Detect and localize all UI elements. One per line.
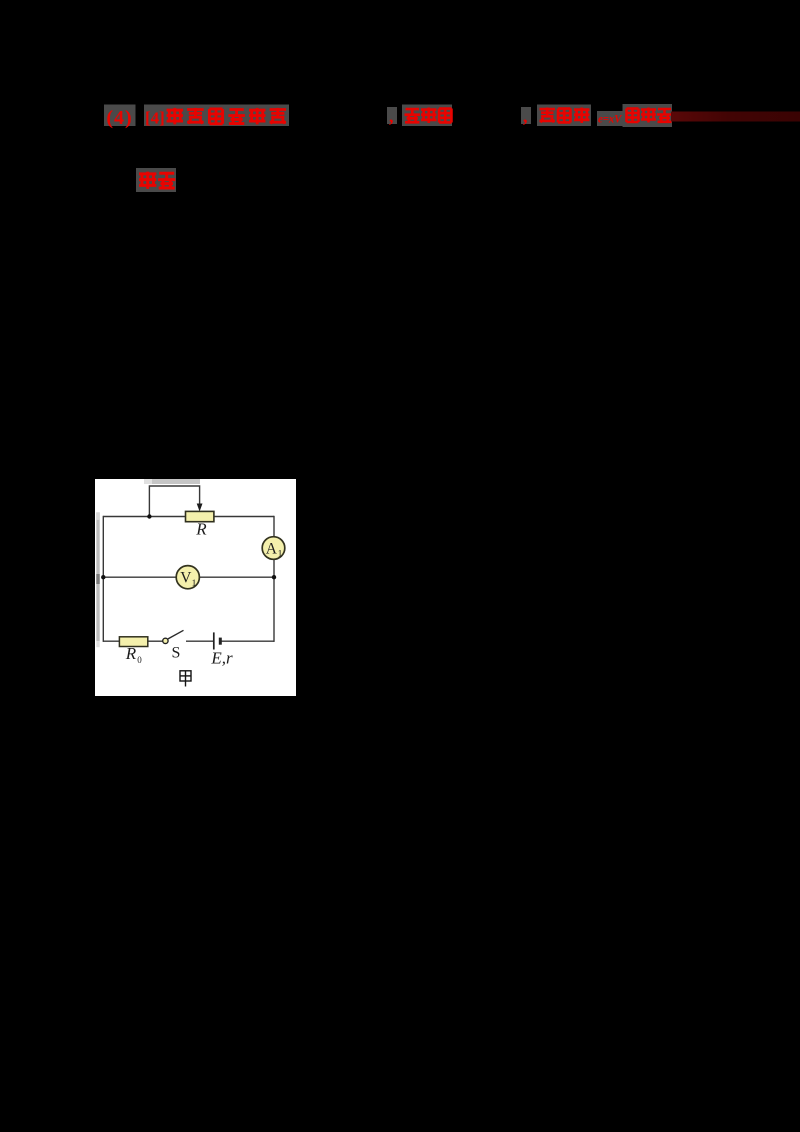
red answer text line 1: highlight box [4] + answer characters [144, 105, 289, 128]
wire: top right [214, 516, 274, 518]
ammeter A1 [262, 537, 285, 560]
caption jia (drawn glyph) [180, 671, 191, 687]
wire: right vertical upper [273, 516, 275, 537]
wire: battery to right [220, 640, 274, 642]
red math e=xV [597, 111, 623, 126]
red answer text line 1: highlight box (4) [104, 105, 136, 130]
red answer segment 3 [537, 105, 591, 127]
red answer segment 4 [623, 104, 673, 127]
rheostat arrow head [197, 504, 203, 512]
label R0 [125, 644, 142, 665]
wire: middle left [103, 576, 176, 578]
voltmeter V1 [176, 566, 199, 589]
node: junction mid-right [272, 575, 276, 579]
wire: left vertical [102, 516, 104, 642]
node: junction mid-left [101, 575, 105, 579]
svg-text:0: 0 [137, 655, 142, 665]
rheostat R [186, 511, 214, 521]
dark red strip to right edge [0, 0, 1, 1]
red answer segment 2 [402, 105, 452, 127]
red comma 1 [387, 106, 397, 126]
resistor R0 [119, 637, 147, 647]
red answer text line 2 [136, 168, 176, 192]
wire: switch to battery [186, 640, 214, 642]
wire: top left [103, 516, 185, 518]
svg-text:R: R [125, 644, 137, 663]
svg-text:(4): (4) [106, 107, 132, 129]
svg-text:V: V [180, 570, 192, 587]
svg-text:E,r: E,r [210, 649, 233, 668]
red comma 2 [521, 106, 531, 126]
wire: rheostat slider loop [149, 486, 199, 517]
svg-text:e=xV: e=xV [598, 112, 622, 126]
white circuit panel [95, 479, 296, 696]
gray scan artifact top strip [144, 479, 200, 484]
gray scan artifact left strip [96, 512, 99, 647]
switch S [163, 630, 184, 643]
svg-text:,: , [523, 106, 528, 126]
svg-text:,: , [389, 106, 394, 126]
wire: bottom left [103, 640, 119, 642]
wire: middle right [199, 576, 274, 578]
svg-text:A: A [266, 540, 278, 557]
svg-text:[4]: [4] [145, 109, 165, 128]
wire: R0 to switch [148, 640, 163, 642]
wire: right vertical lower [273, 559, 275, 642]
node: junction top [147, 514, 151, 518]
svg-text:1: 1 [192, 579, 197, 589]
battery E,r [214, 632, 221, 649]
svg-text:S: S [172, 645, 181, 662]
svg-text:R: R [195, 520, 207, 539]
svg-text:1: 1 [278, 550, 283, 560]
